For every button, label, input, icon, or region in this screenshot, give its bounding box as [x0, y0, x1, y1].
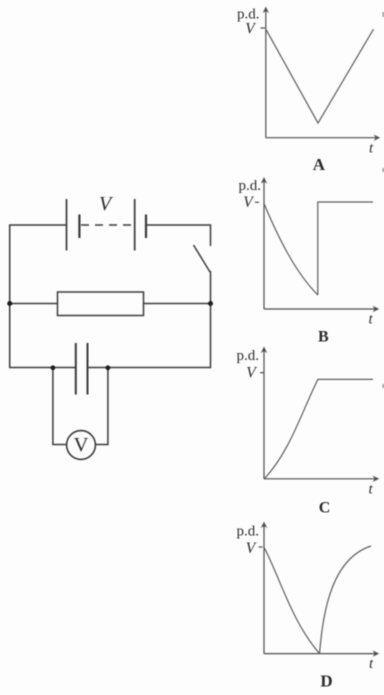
svg-text:V: V [245, 20, 256, 37]
svg-text:V: V [246, 365, 257, 382]
svg-text:t: t [369, 481, 374, 497]
svg-text:p.d.: p.d. [239, 178, 262, 194]
svg-text:B: B [318, 329, 329, 346]
svg-text:C: C [319, 499, 331, 516]
svg-text:D: D [320, 671, 332, 690]
svg-text:t: t [369, 311, 374, 327]
svg-text:V: V [74, 434, 89, 456]
svg-text:t: t [369, 141, 374, 157]
svg-text:V: V [243, 194, 254, 211]
svg-text:p.d.: p.d. [237, 524, 260, 540]
svg-text:V: V [246, 540, 257, 557]
svg-text:V: V [99, 193, 114, 215]
svg-text:p.d.: p.d. [237, 348, 260, 364]
svg-text:t: t [369, 656, 374, 672]
svg-text:A: A [313, 155, 326, 174]
